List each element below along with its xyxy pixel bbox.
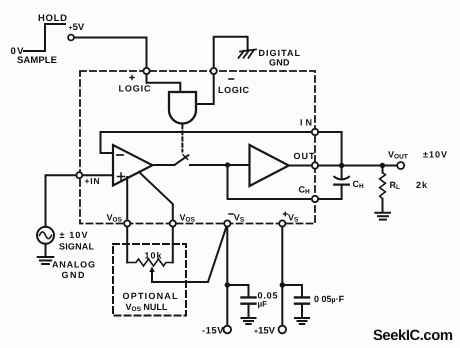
- junction node at buffer input: [225, 162, 230, 167]
- sampling switch: [152, 155, 188, 165]
- -VS supply rail: [226, 227, 228, 326]
- terminal VOUT: [397, 162, 404, 169]
- terminal CH: [312, 196, 318, 202]
- terminal VOS 1: [124, 220, 130, 226]
- wire VOS1 to null pot: [126, 227, 128, 263]
- bypass capacitor 0.05uF (positive rail): [282, 285, 309, 317]
- signal source ±10V: [37, 227, 54, 244]
- svg-text:+15V: +15V: [254, 326, 276, 337]
- wire wiper to -VS: [152, 227, 226, 282]
- ground for RL: [375, 213, 390, 220]
- optional VOS null dashed box: [113, 244, 186, 316]
- wire buffer to OUT terminal: [289, 165, 312, 167]
- terminal -LOGIC: [211, 68, 217, 74]
- label +VS: [284, 212, 288, 215]
- svg-text:GND: GND: [269, 58, 290, 68]
- resistor RL: [380, 166, 386, 212]
- wire -LOGIC to AND gate: [197, 74, 214, 104]
- op-amp (input amplifier): [113, 145, 152, 186]
- ground for negative bypass: [242, 318, 256, 324]
- svg-text:GND: GND: [62, 270, 86, 280]
- wire +LOGIC to AND gate: [147, 74, 181, 91]
- terminal +IN: [76, 172, 82, 178]
- svg-text:µF: µF: [258, 300, 268, 309]
- label -VS: [229, 213, 233, 215]
- potentiometer 10k: [127, 259, 173, 266]
- wire -LOGIC to digital ground: [214, 37, 248, 68]
- label - LOGIC: [229, 78, 234, 80]
- label + LOGIC: [130, 76, 134, 80]
- svg-text:+IN: +IN: [85, 176, 100, 186]
- terminal +LOGIC: [143, 68, 149, 74]
- terminal IN: [312, 129, 318, 135]
- potentiometer wiper arrow: [149, 267, 154, 283]
- wire IN terminal to hold node: [318, 132, 341, 166]
- capacitor CH: [318, 166, 349, 200]
- svg-text:IN: IN: [300, 118, 312, 128]
- svg-text:0 05µ·F: 0 05µ·F: [314, 294, 345, 304]
- +5V terminal: [68, 35, 74, 41]
- wire +5V to +LOGIC: [74, 38, 147, 68]
- digital ground symbol: [239, 50, 257, 58]
- wire OUT terminal to VOUT: [318, 165, 397, 167]
- hold/sample step waveform: [24, 24, 65, 51]
- svg-text:DIGITAL: DIGITAL: [259, 48, 301, 58]
- svg-text:SIGNAL: SIGNAL: [59, 242, 95, 252]
- junction node hold cap: [339, 163, 344, 168]
- svg-text:HOLD: HOLD: [38, 13, 67, 24]
- svg-text:LOGIC: LOGIC: [119, 84, 152, 94]
- svg-text:±10V: ±10V: [423, 150, 447, 160]
- +VS supply rail: [281, 227, 283, 326]
- terminal VOS 2: [170, 220, 176, 226]
- terminal OUT: [312, 162, 318, 168]
- junction node RL: [380, 163, 385, 168]
- wire switch to buffer: [190, 164, 250, 166]
- analog ground symbol: [38, 257, 54, 264]
- terminal -15V: [224, 326, 232, 334]
- output buffer: [250, 145, 289, 186]
- terminal +15V: [279, 326, 287, 334]
- op-amp minus marking: [117, 154, 123, 156]
- wire +IN to op-amp: [82, 174, 113, 176]
- wire source to analog ground: [45, 244, 47, 257]
- wire VOS2 to null pot: [172, 227, 174, 263]
- svg-text:LOGIC: LOGIC: [218, 85, 250, 95]
- svg-text:± 10V: ± 10V: [60, 230, 88, 240]
- svg-text:OPTIONAL: OPTIONAL: [123, 291, 179, 301]
- dashed switch control line from gate: [181, 125, 183, 152]
- svg-text:10k: 10k: [145, 251, 163, 261]
- feedback wire from inverting input to IN line: [101, 132, 312, 153]
- wire op-amp to VOS2: [139, 172, 173, 220]
- ground for positive bypass: [295, 318, 309, 324]
- wire node to CH terminal: [228, 165, 312, 199]
- bypass capacitor 0.05uF (negative rail): [227, 285, 255, 317]
- wire +IN to signal source: [46, 175, 77, 227]
- svg-text:SeekIC.com: SeekIC.com: [373, 328, 453, 344]
- svg-text:ANALOG: ANALOG: [52, 260, 95, 270]
- svg-text:SAMPLE: SAMPLE: [17, 55, 57, 66]
- junction node +VS bypass: [280, 282, 285, 287]
- wire op-amp to VOS1: [126, 177, 128, 220]
- junction node -VS bypass: [225, 282, 230, 287]
- op-amp plus marking: [118, 173, 125, 180]
- svg-text:OUT: OUT: [294, 151, 316, 161]
- terminal +VS: [279, 220, 285, 226]
- terminal -VS: [224, 220, 230, 226]
- svg-text:-15V: -15V: [202, 326, 224, 337]
- AND gate (pointing down): [169, 92, 196, 124]
- dashed IC boundary box: [80, 71, 315, 224]
- svg-text:2k: 2k: [416, 180, 428, 190]
